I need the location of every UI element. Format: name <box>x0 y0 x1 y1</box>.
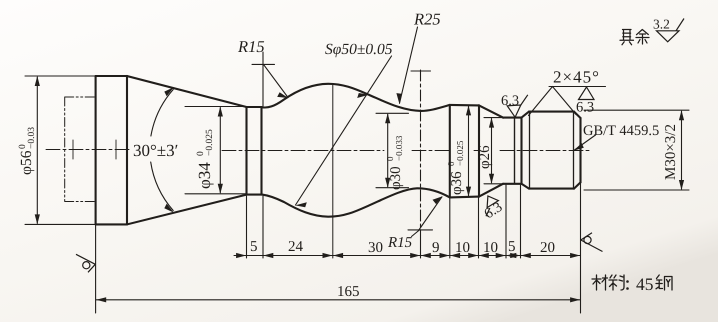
face extension lines down to 165 <box>96 184 581 314</box>
R15 bottom text stroke to cross <box>412 230 421 237</box>
left face finish symbol <box>76 254 95 272</box>
phi26 label <box>477 145 493 169</box>
gang <box>656 275 672 290</box>
svg-text:10: 10 <box>483 240 498 256</box>
24 segment arrows <box>263 253 273 258</box>
6.3 triangle over thread <box>579 87 595 100</box>
svg-text:30°±3′: 30°±3′ <box>133 141 178 160</box>
M30x3/2 label <box>663 124 679 180</box>
phi26 extension lines <box>484 118 503 184</box>
svg-text:−0.033: −0.033 <box>394 135 404 161</box>
liao <box>609 275 624 290</box>
phi36 label <box>446 140 465 195</box>
phi34 arrows <box>218 107 223 117</box>
R15 top leader arrow <box>277 92 288 98</box>
cai <box>592 275 608 290</box>
phi30 arrows <box>385 113 390 123</box>
M30 arrows <box>679 110 684 120</box>
phi30 extension lines <box>376 113 409 187</box>
phi36 arrows <box>466 105 471 115</box>
phi34 extension lines <box>185 107 246 194</box>
thread left chamfer diagonals <box>522 112 530 189</box>
svg-text:−0.025: −0.025 <box>455 140 465 166</box>
phi26 arrows <box>489 118 494 128</box>
svg-text:φ26: φ26 <box>477 145 493 169</box>
cone generators <box>127 76 247 224</box>
phi34 band top/bottom <box>247 107 262 195</box>
svg-text:φ56: φ56 <box>18 150 35 175</box>
svg-text:6.3: 6.3 <box>501 93 519 109</box>
svg-text:Sφ50±0.05: Sφ50±0.05 <box>325 41 393 58</box>
3.2 triangle top right with tail <box>657 31 680 42</box>
svg-text:−0.03: −0.03 <box>27 127 37 149</box>
phi56 dimension line <box>36 77 38 223</box>
R15 bottom center tick <box>408 229 433 231</box>
hand-drawn CJK: qi yu <box>620 30 649 45</box>
cone angle arc arrows <box>164 87 174 96</box>
part outline: left face <box>95 76 97 224</box>
svg-text:30: 30 <box>368 240 383 256</box>
svg-text:24: 24 <box>288 239 304 255</box>
20 segment arrows <box>521 253 531 258</box>
sphere / neck top contour <box>262 84 450 111</box>
sphere / neck bottom contour <box>262 188 450 216</box>
M30 extension lines <box>584 110 689 190</box>
svg-text:5: 5 <box>250 239 258 255</box>
5 segment arrows <box>506 253 516 258</box>
right end face <box>579 118 581 182</box>
phi30 dimension line <box>387 114 389 186</box>
R centerline vertical (dash-dot) <box>420 70 422 230</box>
R15 bottom leader arrow <box>433 196 443 204</box>
phi56 arrows <box>35 76 40 86</box>
phi36 step edge left <box>449 105 451 197</box>
phi56 label <box>18 127 37 175</box>
phi30 label <box>385 135 404 190</box>
R25 leader arrow <box>396 93 401 104</box>
9 segment arrows <box>421 253 431 258</box>
R15 bottom leader to curve <box>419 197 443 231</box>
svg-text:3.2: 3.2 <box>653 17 670 32</box>
bottom chain extension lines <box>246 196 248 258</box>
phi36 dimension line <box>468 106 470 195</box>
Sphi50 diameter leader <box>296 56 392 205</box>
svg-text:45: 45 <box>636 274 654 294</box>
phi26 dimension line <box>491 119 493 183</box>
svg-text:−0.025: −0.025 <box>205 129 215 156</box>
svg-text:6.3: 6.3 <box>576 100 594 116</box>
R15 top: extension + center tick + leader <box>252 52 288 106</box>
right face finish symbol <box>581 233 603 252</box>
hidden socket phantom rect <box>65 97 95 202</box>
Sphi50 arrows <box>357 93 369 98</box>
svg-text:9: 9 <box>432 240 440 256</box>
groove chamfer slopes <box>479 105 503 196</box>
GB/T leader <box>575 135 596 150</box>
thread crest top/bottom <box>529 112 574 189</box>
svg-text:10: 10 <box>455 240 470 256</box>
svg-text:φ30: φ30 <box>388 166 404 190</box>
svg-text:5: 5 <box>508 239 516 255</box>
phi34 dimension line <box>219 108 221 193</box>
yu <box>636 30 649 45</box>
phi56 cylinder top/bottom <box>96 76 127 224</box>
10 segment arrows <box>450 253 460 258</box>
thread right chamfers <box>574 112 581 189</box>
svg-text:R15: R15 <box>237 37 265 56</box>
svg-text:M30×3/2: M30×3/2 <box>663 124 679 180</box>
R25 leader <box>400 27 418 103</box>
6.3 bottom tilted triangle <box>487 196 498 208</box>
165 dimension line <box>96 299 580 301</box>
qi <box>620 30 634 45</box>
phi36 top/bottom <box>450 105 479 197</box>
groove top/bottom <box>503 118 522 184</box>
groove divider line <box>514 118 516 184</box>
svg-text:R25: R25 <box>413 10 441 29</box>
svg-text:2×45°: 2×45° <box>553 68 600 87</box>
thread chamfer boundary lines <box>530 112 574 189</box>
svg-text:R15: R15 <box>387 235 413 251</box>
GB/T leader arrow <box>574 143 584 151</box>
svg-text:φ36: φ36 <box>449 171 465 195</box>
colon <box>626 282 629 289</box>
cone angle arc <box>151 90 174 211</box>
svg-text:165: 165 <box>337 284 360 300</box>
svg-text:20: 20 <box>540 240 555 256</box>
R25 center tick <box>411 70 431 72</box>
centerline <box>46 150 592 151</box>
svg-text:GB/T 4459.5: GB/T 4459.5 <box>583 123 659 139</box>
chain dimension line pieces <box>234 255 580 257</box>
6.3 triangle at groove (open nabla) <box>507 105 521 117</box>
phi36 right edge <box>478 105 480 196</box>
cone start edge <box>126 76 128 224</box>
165 arrows <box>96 297 106 302</box>
30 segment arrows <box>333 253 343 258</box>
svg-text:φ34: φ34 <box>195 162 214 189</box>
chain arrows at 246.5 (outside) <box>236 253 246 258</box>
thread left wall <box>520 118 522 184</box>
6.3 bar over thread <box>549 86 606 88</box>
phi34 label <box>195 129 215 189</box>
chamfer 2x45 leaders <box>529 87 577 116</box>
centerline cross ticks <box>73 140 116 159</box>
phi34 band walls <box>247 107 262 195</box>
phi56 extension lines <box>25 76 95 224</box>
M30 dimension line <box>681 111 683 189</box>
10 segment arrows <box>479 253 489 258</box>
hand-drawn CJK: cai liao : 45 gang <box>592 275 672 290</box>
